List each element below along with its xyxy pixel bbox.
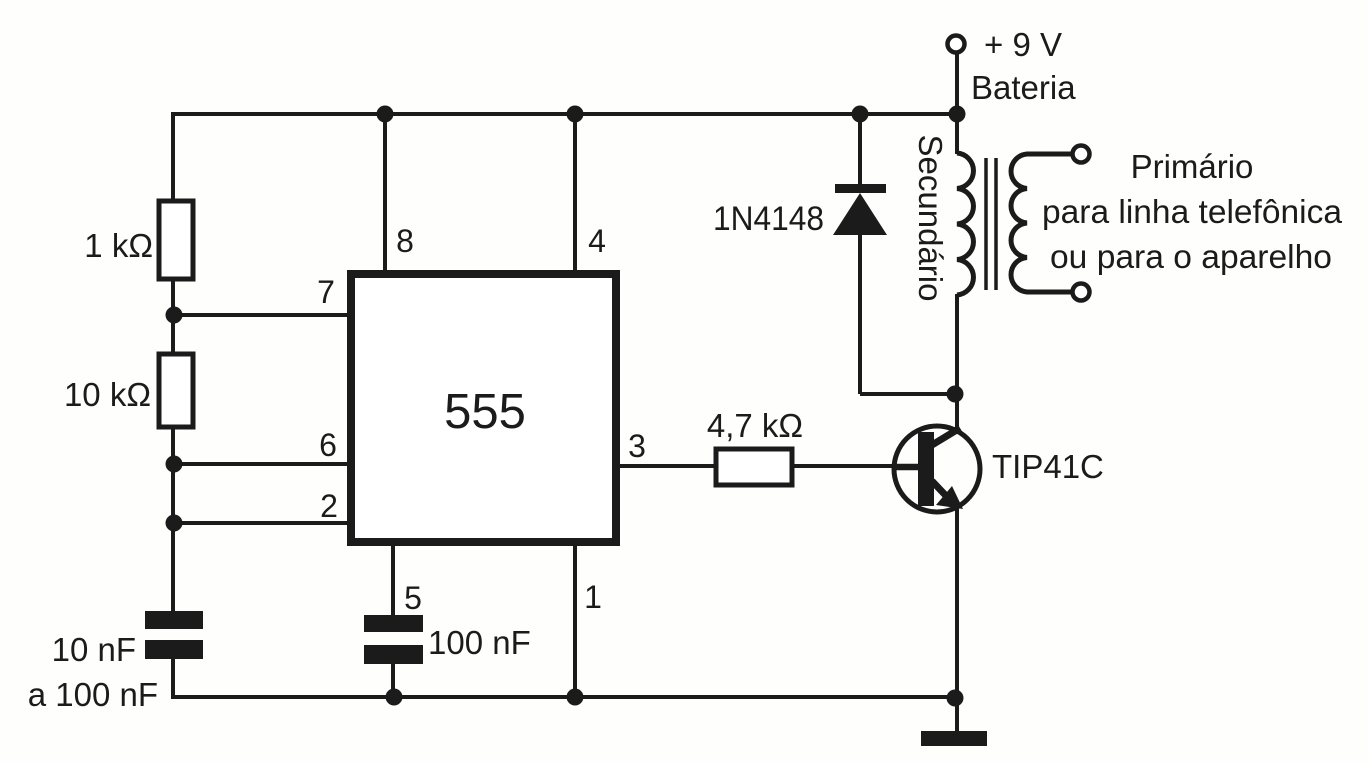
wire base of Q1	[791, 464, 926, 468]
node pin2 junction	[166, 515, 183, 532]
svg-text:4: 4	[588, 223, 606, 259]
capacitor C1 10nF-100nF plates	[145, 611, 203, 659]
wire pin 6	[173, 462, 350, 466]
wire left rail between R1 and R2	[171, 278, 175, 356]
wire diode cathode to top rail	[858, 114, 862, 186]
IC U1 555	[351, 274, 616, 542]
resistor R2 10 kΩ	[159, 354, 193, 427]
wire battery terminal down	[955, 52, 959, 154]
battery terminal circle	[948, 36, 965, 53]
node battery top rail junction	[949, 106, 966, 123]
svg-text:1 kΩ: 1 kΩ	[84, 227, 153, 264]
svg-text:Primário: Primário	[1131, 148, 1254, 185]
wire pin 2	[173, 521, 350, 525]
wire bottom rail	[171, 695, 955, 699]
wire below C2	[391, 662, 395, 699]
svg-text:Bateria: Bateria	[971, 69, 1076, 106]
ground	[921, 731, 987, 746]
svg-text:555: 555	[444, 385, 526, 439]
terminal primary top	[1073, 146, 1090, 163]
svg-text:a 100 nF: a 100 nF	[28, 676, 158, 713]
node emitter bottom rail junction	[947, 690, 964, 707]
wire pin 1	[573, 544, 577, 699]
node diode top rail junction	[852, 106, 869, 123]
svg-text:2: 2	[320, 488, 338, 524]
svg-text:1: 1	[584, 579, 602, 615]
node C2 bottom rail junction	[386, 689, 403, 706]
wire pin 4	[573, 114, 577, 272]
svg-text:100 nF: 100 nF	[428, 624, 531, 661]
svg-text:TIP41C: TIP41C	[992, 448, 1104, 485]
svg-text:7: 7	[317, 274, 335, 310]
wire left rail upper	[171, 112, 175, 203]
wire emitter down to ground	[955, 508, 959, 734]
node pin4 top rail junction	[567, 106, 584, 123]
svg-text:10 kΩ: 10 kΩ	[64, 376, 151, 413]
svg-text:10 nF: 10 nF	[52, 631, 136, 668]
capacitor C2 100nF plates	[364, 615, 423, 664]
node pin8 top rail junction	[377, 106, 394, 123]
transformer T1 secondary winding	[957, 153, 973, 295]
transformer T1 primary winding	[1011, 154, 1073, 292]
svg-text:+ 9 V: + 9 V	[984, 26, 1062, 63]
resistor R1 1 kΩ	[159, 201, 193, 279]
terminal primary bottom	[1073, 284, 1090, 301]
transistor Q1 TIP41C	[894, 426, 980, 512]
svg-text:3: 3	[628, 428, 646, 464]
resistor R3 4,7 kΩ	[716, 449, 792, 485]
wire left rail lower	[171, 657, 175, 699]
node collector junction	[947, 386, 964, 403]
wire diode to collector node	[860, 392, 955, 396]
wire left rail mid	[171, 426, 175, 613]
svg-text:6: 6	[319, 427, 337, 463]
wire pin 3	[618, 464, 716, 468]
node pin6 junction	[166, 456, 183, 473]
svg-text:para linha telefônica: para linha telefônica	[1042, 193, 1343, 230]
node pin1 bottom rail junction	[567, 689, 584, 706]
svg-text:ou para o aparelho: ou para o aparelho	[1050, 238, 1332, 275]
svg-text:5: 5	[404, 580, 422, 616]
wire secondary bottom to collector	[955, 294, 959, 428]
svg-text:1N4148: 1N4148	[713, 200, 824, 238]
transformer T1 core lines	[986, 158, 996, 290]
svg-text:8: 8	[396, 223, 414, 259]
svg-text:4,7 kΩ: 4,7 kΩ	[707, 407, 803, 444]
svg-text:Secundário: Secundário	[912, 135, 949, 302]
wire diode anode down	[858, 233, 862, 394]
node pin7 junction	[166, 307, 183, 324]
wire pin 8	[383, 114, 387, 272]
wire top rail	[173, 112, 957, 116]
diode D1 1N4148	[833, 184, 887, 235]
wire pin 5	[391, 544, 395, 616]
wire pin 7	[173, 313, 350, 317]
